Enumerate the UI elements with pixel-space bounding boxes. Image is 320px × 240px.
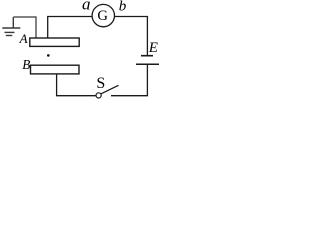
wire battery to switch [111, 64, 147, 95]
wire plate A to galvanometer [48, 17, 92, 39]
svg-text:B: B [22, 57, 30, 72]
svg-text:G: G [97, 8, 108, 24]
svg-text:a: a [82, 0, 91, 13]
svg-text:A: A [19, 31, 28, 46]
wire ground to plate A [13, 17, 36, 39]
battery E [141, 55, 153, 57]
ground [2, 17, 20, 36]
charged particle [47, 54, 50, 57]
switch S [96, 93, 101, 98]
galvanometer G [92, 4, 114, 26]
plate B [31, 65, 80, 74]
svg-text:E: E [148, 40, 158, 56]
wire galvanometer to battery [114, 17, 147, 56]
svg-text:S: S [96, 75, 105, 92]
wire switch to plate B [57, 74, 97, 96]
plate A [30, 38, 79, 46]
svg-text:b: b [119, 0, 127, 15]
